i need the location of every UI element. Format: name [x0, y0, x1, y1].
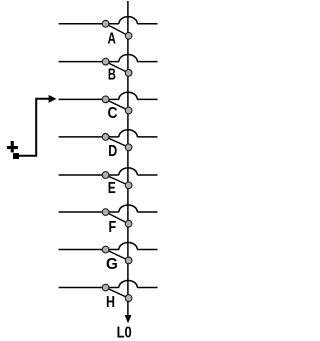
- wire: rail C right segment: [137, 98, 157, 100]
- switch F arm: [106, 212, 129, 224]
- switch B arm: [106, 62, 129, 73]
- wire: rail F right segment: [137, 211, 157, 213]
- svg-text:G: G: [106, 256, 118, 273]
- switch E pole contact on chain: [125, 182, 132, 189]
- label E: [108, 180, 116, 197]
- switch F pole contact on chain: [125, 220, 132, 227]
- switch G fixed contact: [102, 246, 109, 253]
- crossover hop on rail H over the chain: [119, 280, 137, 287]
- svg-text:F: F: [108, 219, 116, 236]
- node: + terminal connection dot: [13, 153, 19, 159]
- wire: rail A right segment: [137, 23, 157, 25]
- wire: rail B left segment: [59, 61, 119, 63]
- crossover hop on rail F over the chain: [119, 205, 137, 212]
- switch D pole contact on chain: [125, 144, 132, 151]
- wire: rail F left segment: [59, 211, 119, 213]
- svg-text:H: H: [106, 294, 115, 311]
- wire: rail C left segment: [59, 98, 119, 100]
- wire: rail G left segment: [59, 249, 119, 251]
- switch G arm: [106, 250, 129, 261]
- crossover hop on rail A over the chain: [119, 17, 137, 24]
- crossover hop on rail E over the chain: [119, 168, 137, 175]
- label H: [106, 294, 115, 311]
- wire: rail E right segment: [137, 174, 157, 176]
- crossover hop on rail G over the chain: [119, 242, 137, 249]
- wire: rail B right segment: [137, 61, 157, 63]
- wire: rail E left segment: [59, 174, 119, 176]
- arrowhead: current direction into rail C: [49, 95, 57, 103]
- wire: + terminal to rail C: [19, 99, 49, 156]
- wire: rail D right segment: [137, 136, 157, 138]
- svg-text:E: E: [108, 180, 116, 197]
- switch G pole contact on chain: [125, 257, 132, 264]
- wire: rail H left segment: [59, 287, 119, 289]
- wire: rail H right segment: [137, 287, 157, 289]
- switch H pole contact on chain: [125, 295, 132, 302]
- switch E fixed contact: [102, 172, 109, 179]
- label C: [108, 105, 118, 122]
- svg-text:B: B: [108, 67, 116, 84]
- svg-text:C: C: [108, 105, 118, 122]
- wire: rail A left segment: [59, 23, 119, 25]
- label B: [108, 67, 116, 84]
- label F: [108, 219, 116, 236]
- label G: [106, 256, 118, 273]
- label L0: [117, 325, 132, 341]
- crossover hop on rail D over the chain: [119, 130, 137, 137]
- switch C arm: [106, 99, 129, 110]
- crossover hop on rail C over the chain: [119, 92, 137, 99]
- switch D fixed contact: [102, 134, 109, 141]
- label A: [108, 30, 116, 47]
- switch B fixed contact: [102, 58, 109, 65]
- switch C pole contact on chain: [125, 107, 132, 114]
- wire: rail D left segment: [59, 136, 119, 138]
- switch F fixed contact: [102, 209, 109, 216]
- crossover hop on rail B over the chain: [119, 55, 137, 62]
- wire: vertical common chain from top feed down to output: [127, 1, 129, 315]
- output arrowhead to L0: [125, 315, 132, 323]
- label D: [108, 143, 117, 160]
- wire: rail G right segment: [137, 249, 157, 251]
- switch B pole contact on chain: [125, 70, 132, 77]
- svg-text:A: A: [108, 30, 116, 47]
- switch H fixed contact: [102, 284, 109, 291]
- switch H arm: [106, 288, 129, 299]
- svg-text:D: D: [108, 143, 117, 160]
- battery positive terminal (+): [7, 141, 18, 152]
- switch E arm: [106, 175, 129, 185]
- switch C fixed contact: [102, 96, 109, 103]
- switch A fixed contact: [102, 20, 109, 27]
- svg-text:L0: L0: [117, 325, 132, 341]
- switch D arm: [106, 137, 129, 147]
- switch A arm: [106, 24, 129, 36]
- switch A pole contact on chain: [125, 32, 132, 39]
